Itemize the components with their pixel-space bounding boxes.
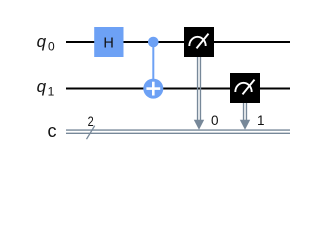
svg-text:0: 0 xyxy=(211,113,219,128)
svg-text:q: q xyxy=(37,77,47,96)
svg-text:c: c xyxy=(48,121,57,141)
svg-text:1: 1 xyxy=(48,85,55,99)
svg-text:q: q xyxy=(37,32,47,51)
svg-text:0: 0 xyxy=(48,40,55,54)
svg-text:1: 1 xyxy=(257,113,265,128)
svg-text:H: H xyxy=(103,35,113,51)
svg-text:2: 2 xyxy=(88,114,94,130)
